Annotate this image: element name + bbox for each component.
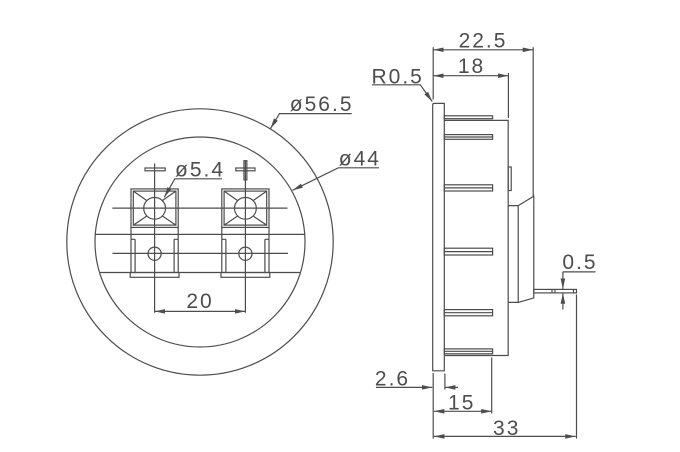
right terminal inner square [224,191,267,225]
svg-text:33: 33 [493,417,520,440]
dim 0.5 lower arrow [562,293,564,309]
dim 18 extension line [507,73,509,118]
leader ø44 [293,168,380,191]
dim 18 line [433,75,508,77]
right terminal foot strip [221,273,270,278]
rib 3 [444,185,492,191]
right terminal lower hole [239,247,252,260]
svg-text:ø5.4: ø5.4 [175,159,225,182]
lower chord line across inner circle [100,272,301,274]
svg-text:22.5: 22.5 [459,29,508,52]
svg-text:20: 20 [186,290,213,313]
upper chord line across inner circle [95,233,304,235]
horizontal centerline through upper terminal holes [112,207,287,209]
horizontal centerline through lower terminal holes [112,252,288,254]
rib 1 [444,116,492,119]
dim 2.6 right arrow tail [445,386,458,388]
left terminal lower block outer sides [131,239,178,272]
left terminal outer square [131,189,178,228]
leader ø5.4 [164,179,222,198]
dim 0.5 shelf [563,271,596,273]
right terminal lower block inner sides [226,239,265,272]
minus polarity marker [145,168,165,171]
dim 0.5 upper arrow [562,272,564,289]
dim 33 right extension line [576,295,578,439]
pin (lead) [534,289,577,293]
rib 6 [444,349,492,354]
right terminal lower block outer sides [222,239,269,272]
left terminal vertical centerline [154,164,156,313]
svg-text:ø44: ø44 [339,147,381,170]
dim 15 line [434,410,492,412]
rib 2 [444,135,492,140]
left terminal hole circle ø5.4 [144,197,166,219]
pin tick marks [552,289,574,293]
dim 22.5 extension lines [433,47,533,196]
rib 5 [444,310,492,316]
dim 2.6 right extension line [444,374,446,390]
side view body outline [444,120,508,355]
dim 22.5 line [433,49,533,51]
right terminal collar bottom step [222,238,269,240]
svg-text:15: 15 [448,392,475,415]
right terminal outer square [222,189,269,228]
left terminal inner square [133,191,176,225]
left bottom extension line (flange left) [432,373,434,439]
svg-text:0.5: 0.5 [562,251,597,274]
left terminal lower hole [148,247,161,260]
rear plate (trapezoid) [518,196,534,302]
left terminal collar bottom step [131,238,178,240]
dim 33 line [434,435,576,437]
left terminal X diagonals [133,191,176,225]
leader R0.5 [372,85,433,102]
side tab on body right edge [508,167,511,191]
leader ø56.5 [271,114,352,129]
svg-text:2.6: 2.6 [375,367,410,390]
svg-text:R0.5: R0.5 [372,65,424,88]
dim 15 right extension line [491,358,493,414]
left terminal foot strip [130,273,179,278]
plus polarity marker [236,161,255,180]
dim 2.6 left arrow tail [376,386,432,388]
dimension 20 line with arrows [155,310,246,312]
svg-text:18: 18 [458,55,485,78]
side view flange [433,103,445,370]
right terminal vertical centerline [244,161,246,313]
left terminal collar sides [131,227,178,239]
right terminal X diagonals [224,191,267,225]
neck between body and rear plate [508,206,518,303]
front view inner circle ø44 [95,137,305,347]
front view outer circle ø56.5 [67,109,333,375]
svg-text:ø56.5: ø56.5 [290,93,354,116]
rib 4 [444,248,492,255]
right terminal hole circle [235,197,257,219]
left terminal lower block inner sides [135,239,174,272]
right terminal collar sides [222,227,269,239]
